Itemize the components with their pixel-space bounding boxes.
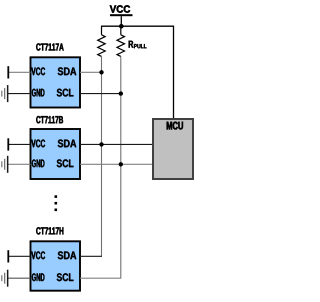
power symbol VCC label xyxy=(110,5,130,12)
sensor U2 CT7117B body xyxy=(31,129,81,179)
sensor U8 CT7117H body xyxy=(31,241,81,290)
pin label U8 SCL xyxy=(57,273,74,281)
sensor U1 CT7117A label xyxy=(36,43,63,50)
wire VCC stem xyxy=(120,16,122,26)
MCU U9 body xyxy=(153,119,193,179)
junction dot VCC rail xyxy=(119,24,124,29)
power symbol VCC bar xyxy=(110,14,133,16)
wire U1 GND pin xyxy=(8,93,31,95)
pin label U1 SCL xyxy=(57,89,74,97)
power terminal bar U2 VCC xyxy=(7,138,9,150)
wire U8 SCL to bus end xyxy=(80,277,121,279)
resistor R2 RPULL stub xyxy=(120,26,122,35)
ellipsis dots xyxy=(55,195,58,211)
pin label U1 GND xyxy=(32,89,45,97)
ground U1 bar short xyxy=(1,91,2,97)
ground U2 bar medium xyxy=(4,159,5,170)
ground U8 bar tall xyxy=(7,270,8,287)
ground U8 bar short xyxy=(1,275,2,281)
ground U2 bar tall xyxy=(7,156,8,173)
wire U8 VCC pin xyxy=(8,255,30,257)
resistor R2 RPULL zigzag xyxy=(117,35,125,57)
wire U2 SDA to MCU xyxy=(80,143,153,145)
pin label U8 SDA xyxy=(58,251,77,259)
junction dot U1 SCL xyxy=(119,91,123,95)
wire SCL bus vertical xyxy=(120,56,122,278)
wire VCC rail xyxy=(101,25,174,27)
sensor U2 CT7117B label xyxy=(36,116,63,123)
power terminal bar U8 VCC xyxy=(7,250,9,262)
junction dot U2 SDA xyxy=(99,142,103,146)
wire U2 GND pin xyxy=(8,163,31,165)
pin label U2 SCL xyxy=(57,159,74,167)
sensor U1 CT7117A body xyxy=(31,57,81,107)
ground U1 bar tall xyxy=(7,85,8,102)
pin label U1 VCC xyxy=(31,67,45,75)
wire U1 SCL to bus xyxy=(80,93,121,95)
sensor U8 CT7117H label xyxy=(36,227,63,234)
wire U8 SDA to bus end xyxy=(80,255,102,257)
junction dot U1 SDA xyxy=(99,70,103,74)
label RPULL xyxy=(129,41,147,49)
wire U8 GND pin xyxy=(8,277,31,279)
pin label U2 SDA xyxy=(58,140,77,148)
wire VCC drop to MCU xyxy=(173,26,175,119)
wire U1 SDA to bus xyxy=(80,71,102,73)
pin label U2 GND xyxy=(32,159,45,167)
power terminal bar U1 VCC xyxy=(7,66,9,78)
pin label U2 VCC xyxy=(31,140,45,148)
wire U2 VCC pin xyxy=(8,143,30,145)
pin label U8 GND xyxy=(32,273,45,281)
junction dot U2 SCL xyxy=(119,162,123,166)
pin label U1 SDA xyxy=(58,67,77,75)
MCU U9 label xyxy=(167,122,183,130)
resistor R1 stub xyxy=(101,26,103,35)
ground U8 bar medium xyxy=(4,273,5,284)
ground U2 bar short xyxy=(1,161,2,167)
wire SDA bus vertical xyxy=(101,56,103,256)
pin label U8 VCC xyxy=(31,251,45,259)
resistor R1 zigzag xyxy=(98,35,106,57)
wire U2 SCL to MCU xyxy=(80,163,153,165)
wire U1 VCC pin xyxy=(8,71,30,73)
ground U1 bar medium xyxy=(4,88,5,99)
